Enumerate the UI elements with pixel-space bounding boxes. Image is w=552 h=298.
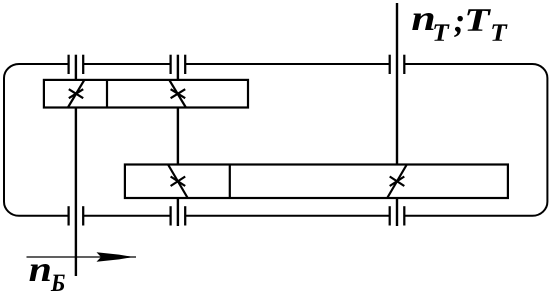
gear block rect bottom (second stage gear pair): [125, 165, 508, 199]
bearing gap cover shaft3 bottom: [390, 213, 403, 219]
bearing gap cover shaft2 bottom: [171, 213, 184, 219]
shaft 3 (output shaft): [396, 3, 398, 226]
bearing gap cover shaft1 top: [69, 62, 82, 68]
shaft 1 (input shaft): [75, 55, 77, 276]
fixed joint mark gear3 on shaft2 (bottom block): [168, 165, 187, 198]
input rotation arrow line: [27, 256, 137, 258]
gear block rect top (first stage gear pair): [44, 80, 248, 108]
label n_T ; T_T (output speed and torque): [412, 9, 507, 41]
bearing shaft3 top: [390, 55, 405, 74]
fixed joint mark gear2 on shaft2 (top block): [170, 80, 187, 108]
shaft 2 (intermediate shaft): [177, 55, 179, 226]
bearing shaft2 bottom: [171, 206, 186, 225]
gear block bottom divider: [229, 165, 231, 199]
bearing shaft3 bottom: [390, 206, 405, 225]
bearing shaft1 top: [69, 55, 84, 74]
bearing shaft1 bottom: [69, 206, 84, 225]
input rotation arrow head: [97, 252, 134, 261]
gear block top divider: [106, 80, 108, 108]
housing (gearbox case outline): [4, 64, 547, 216]
bearing gap cover shaft3 top: [390, 62, 403, 68]
fixed joint mark gear1 on shaft1: [68, 80, 85, 108]
fixed joint mark gear4 on shaft3: [388, 165, 407, 198]
bearing gap cover shaft1 bottom: [69, 213, 82, 219]
label n_B (input speed): [29, 264, 64, 291]
bearing shaft2 top: [171, 55, 186, 74]
bearing gap cover shaft2 top: [171, 62, 184, 68]
